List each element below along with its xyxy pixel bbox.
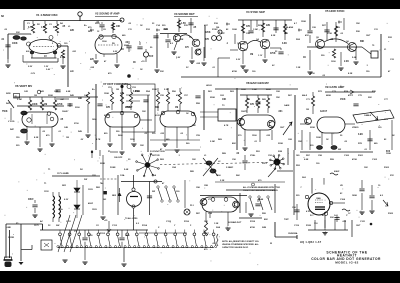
- svg-text:R18: R18: [214, 23, 219, 25]
- svg-text:R103: R103: [384, 167, 390, 169]
- svg-text:C17: C17: [204, 25, 209, 27]
- svg-text:V4 SYNC SEP: V4 SYNC SEP: [246, 10, 265, 14]
- svg-text:J1: J1: [384, 49, 387, 51]
- svg-text:C79: C79: [384, 119, 389, 121]
- svg-text:G-Y: G-Y: [334, 215, 338, 217]
- svg-text:.01: .01: [58, 131, 62, 133]
- svg-text:220: 220: [296, 195, 300, 197]
- svg-text:C57: C57: [184, 95, 189, 97]
- svg-text:250K: 250K: [210, 97, 215, 99]
- svg-text:C94: C94: [208, 212, 213, 215]
- svg-text:R105: R105: [388, 213, 394, 215]
- svg-text:2N35: 2N35: [124, 45, 130, 47]
- svg-text:3A3: 3A3: [302, 176, 307, 179]
- svg-text:150: 150: [16, 137, 20, 139]
- svg-text:1.2M: 1.2M: [252, 89, 257, 91]
- svg-text:Q4: Q4: [256, 38, 260, 41]
- svg-text:1K: 1K: [186, 113, 189, 115]
- svg-text:8.2K: 8.2K: [348, 73, 353, 75]
- svg-text:1500: 1500: [102, 41, 107, 43]
- svg-text:12: 12: [97, 31, 100, 33]
- svg-text:.02: .02: [236, 153, 240, 155]
- svg-text:470K: 470K: [232, 70, 237, 73]
- svg-text:0.2V: 0.2V: [236, 59, 241, 61]
- svg-text:100: 100: [176, 191, 180, 193]
- svg-text:1V: 1V: [44, 56, 47, 58]
- svg-text:.1: .1: [178, 155, 181, 157]
- svg-text:-1.2V: -1.2V: [30, 73, 36, 75]
- svg-text:+35: +35: [104, 220, 108, 222]
- svg-text:10: 10: [378, 185, 381, 187]
- svg-text:1K: 1K: [121, 49, 124, 51]
- svg-text:12K: 12K: [364, 167, 368, 169]
- svg-text:12K: 12K: [192, 159, 196, 161]
- svg-text:UNLESS OTHERWISE SPECIFIED. AL: UNLESS OTHERWISE SPECIFIED. ALL: [222, 243, 260, 246]
- svg-text:1200: 1200: [130, 139, 135, 141]
- svg-text:C3: C3: [49, 24, 53, 26]
- svg-text:6CG7: 6CG7: [155, 115, 161, 117]
- svg-text:1M: 1M: [116, 89, 119, 91]
- svg-text:C121: C121: [360, 221, 366, 223]
- svg-text:R118: R118: [250, 221, 256, 223]
- svg-text:C92: C92: [268, 155, 273, 157]
- svg-text:2700: 2700: [74, 123, 79, 125]
- svg-text:OUT: OUT: [280, 127, 285, 129]
- svg-text:470: 470: [204, 248, 208, 251]
- svg-text:TO ALL HTRS: TO ALL HTRS: [125, 217, 138, 220]
- svg-text:33K: 33K: [330, 217, 334, 219]
- svg-text:R56: R56: [172, 91, 177, 93]
- svg-text:8.2K: 8.2K: [271, 35, 276, 37]
- svg-text:47K: 47K: [106, 106, 111, 109]
- svg-text:33: 33: [275, 51, 278, 53]
- svg-text:Y: Y: [174, 225, 176, 227]
- svg-text:1K: 1K: [392, 135, 395, 137]
- svg-text:6.8K: 6.8K: [304, 159, 309, 161]
- svg-text:2V: 2V: [186, 67, 189, 69]
- svg-text:82: 82: [384, 139, 387, 141]
- svg-text:B+: B+: [92, 89, 96, 91]
- svg-text:2.2K: 2.2K: [344, 61, 349, 63]
- svg-text:470: 470: [88, 26, 92, 29]
- svg-text:R120: R120: [306, 225, 312, 227]
- svg-text:22: 22: [15, 96, 17, 98]
- svg-text:22K: 22K: [70, 30, 75, 32]
- svg-text:R76: R76: [372, 91, 377, 93]
- svg-text:.01: .01: [330, 39, 334, 41]
- svg-text:C26: C26: [312, 27, 317, 29]
- svg-text:.01: .01: [1, 39, 5, 41]
- svg-text:470K: 470K: [135, 90, 140, 93]
- svg-text:22K: 22K: [266, 25, 271, 27]
- svg-text:C11: C11: [128, 29, 133, 31]
- svg-text:180: 180: [296, 155, 300, 157]
- svg-text:AC: AC: [40, 220, 44, 223]
- svg-text:1M: 1M: [34, 95, 37, 97]
- svg-text:3300: 3300: [75, 107, 80, 109]
- svg-text:R45: R45: [70, 94, 75, 97]
- svg-text:2.2K: 2.2K: [220, 180, 225, 182]
- svg-text:100K: 100K: [232, 29, 237, 31]
- svg-text:15K: 15K: [276, 97, 280, 99]
- svg-text:SIZE: SIZE: [6, 93, 11, 95]
- svg-text:4.7: 4.7: [294, 22, 298, 25]
- svg-text:C98: C98: [318, 155, 323, 157]
- svg-text:1A: 1A: [60, 208, 63, 211]
- svg-text:R15: R15: [184, 25, 189, 27]
- svg-text:.033: .033: [160, 133, 165, 135]
- svg-text:220: 220: [16, 145, 20, 147]
- svg-text:270: 270: [238, 135, 242, 137]
- svg-text:2.2M: 2.2M: [210, 141, 215, 143]
- svg-text:C48: C48: [64, 126, 69, 129]
- svg-text:5.6K: 5.6K: [352, 57, 357, 59]
- svg-text:V POS: V POS: [8, 121, 15, 123]
- svg-text:.01: .01: [364, 149, 368, 151]
- svg-text:0.5V: 0.5V: [28, 66, 33, 68]
- svg-text:TAL: TAL: [100, 182, 104, 185]
- svg-text:.005: .005: [196, 63, 201, 65]
- svg-text:1200: 1200: [216, 175, 221, 177]
- svg-text:.01: .01: [212, 67, 216, 69]
- svg-text:.05: .05: [344, 141, 348, 143]
- svg-text:100K: 100K: [316, 137, 321, 139]
- svg-text:Q5: Q5: [316, 37, 320, 39]
- svg-text:+15: +15: [141, 61, 145, 63]
- svg-text:4700: 4700: [310, 72, 315, 75]
- svg-text:S2B: S2B: [262, 227, 267, 229]
- svg-text:12AU7: 12AU7: [320, 110, 328, 113]
- svg-text:PL1: PL1: [190, 205, 195, 207]
- svg-text:V5 HOR SYNC: V5 HOR SYNC: [325, 9, 346, 13]
- svg-text:Q6: Q6: [346, 41, 350, 43]
- svg-text:C20: C20: [246, 33, 251, 35]
- svg-text:.05: .05: [62, 26, 66, 28]
- svg-text:1N60: 1N60: [163, 29, 169, 31]
- svg-text:T3: T3: [222, 105, 225, 107]
- svg-text:.01: .01: [254, 141, 258, 143]
- svg-text:R95: R95: [262, 213, 267, 215]
- svg-text:OUT: OUT: [366, 35, 371, 37]
- svg-text:R-Y: R-Y: [310, 215, 314, 217]
- svg-text:470K: 470K: [352, 158, 357, 161]
- svg-text:.05: .05: [42, 131, 46, 133]
- svg-text:115V: 115V: [44, 191, 49, 193]
- svg-text:C75: C75: [358, 95, 363, 97]
- svg-text:C14: C14: [156, 24, 161, 27]
- svg-text:N2: N2: [1, 16, 5, 18]
- svg-text:270K: 270K: [327, 33, 332, 35]
- svg-text:6AL5: 6AL5: [302, 94, 308, 97]
- svg-text:L1: L1: [204, 155, 207, 157]
- svg-text:82: 82: [226, 29, 229, 31]
- svg-text:6.3V: 6.3V: [64, 199, 69, 201]
- svg-text:CHROMA: CHROMA: [288, 232, 298, 235]
- svg-text:82K: 82K: [264, 219, 268, 221]
- svg-text:1.5K: 1.5K: [41, 27, 46, 29]
- svg-text:470: 470: [185, 46, 190, 49]
- svg-text:220K: 220K: [125, 107, 131, 109]
- svg-text:250V: 250V: [95, 23, 100, 25]
- svg-text:1500: 1500: [252, 135, 257, 137]
- svg-text:22K: 22K: [70, 71, 74, 73]
- svg-text:C102: C102: [372, 159, 378, 161]
- svg-text:R54: R54: [146, 90, 151, 93]
- svg-text:1M: 1M: [66, 137, 69, 139]
- svg-text:60HZ: 60HZ: [334, 171, 340, 173]
- svg-text:R93: R93: [296, 165, 301, 167]
- svg-text:V7 DOT FORM MV: V7 DOT FORM MV: [103, 82, 128, 86]
- svg-text:1V: 1V: [348, 213, 351, 215]
- svg-text:6EA8: 6EA8: [258, 198, 264, 201]
- svg-text:R114: R114: [142, 224, 148, 227]
- svg-text:33: 33: [152, 23, 155, 25]
- svg-text:SYNC: SYNC: [212, 29, 218, 31]
- svg-text:ALL VOLTAGES MEASURED WITH VTV: ALL VOLTAGES MEASURED WITH VTVM: [243, 186, 280, 189]
- svg-text:C23: C23: [284, 33, 289, 35]
- svg-text:R12: R12: [146, 29, 151, 31]
- svg-text:47K: 47K: [250, 103, 255, 106]
- svg-text:330K: 330K: [278, 143, 283, 145]
- svg-text:R27: R27: [322, 25, 327, 27]
- svg-text:R61: R61: [208, 91, 213, 93]
- svg-text:.7: .7: [300, 187, 302, 189]
- svg-text:V9 GATE AMP: V9 GATE AMP: [325, 85, 344, 89]
- svg-text:1800: 1800: [92, 119, 97, 121]
- svg-text:.001: .001: [72, 51, 77, 53]
- svg-text:C119: C119: [294, 225, 300, 227]
- svg-text:.005: .005: [90, 67, 95, 69]
- svg-text:4.5: 4.5: [170, 42, 174, 45]
- svg-text:R4: R4: [60, 22, 64, 25]
- svg-text:C84: C84: [172, 166, 177, 169]
- svg-text:150: 150: [366, 71, 370, 73]
- svg-text:1200: 1200: [331, 61, 336, 63]
- svg-text:.02: .02: [125, 42, 129, 44]
- svg-text:R82: R82: [96, 187, 101, 189]
- svg-text:1K: 1K: [326, 139, 329, 141]
- svg-text:20: 20: [150, 47, 153, 49]
- svg-text:33K: 33K: [160, 71, 164, 73]
- svg-text:150V: 150V: [92, 209, 97, 211]
- svg-text:3.58MC: 3.58MC: [226, 167, 234, 169]
- svg-text:1M: 1M: [306, 109, 309, 111]
- svg-text:W: W: [270, 243, 272, 245]
- svg-text:470: 470: [108, 72, 112, 75]
- svg-text:150K: 150K: [301, 21, 306, 23]
- svg-text:C29: C29: [336, 27, 341, 29]
- svg-text:12AX7: 12AX7: [62, 110, 69, 113]
- svg-text:4.7K: 4.7K: [28, 26, 33, 29]
- svg-text:15K: 15K: [356, 23, 360, 25]
- svg-text:R69: R69: [218, 139, 223, 141]
- svg-text:5UF: 5UF: [149, 56, 154, 58]
- svg-text:1/2A: 1/2A: [120, 174, 125, 177]
- svg-text:S2A: S2A: [216, 226, 221, 229]
- svg-text:27K: 27K: [390, 175, 394, 177]
- svg-text:560: 560: [186, 143, 190, 145]
- svg-text:V6 VERT MV: V6 VERT MV: [15, 84, 32, 88]
- svg-text:40UF: 40UF: [88, 202, 94, 205]
- svg-text:39K: 39K: [78, 98, 83, 100]
- svg-text:R65: R65: [262, 99, 267, 101]
- svg-text:220K: 220K: [205, 32, 211, 34]
- svg-text:2.2K: 2.2K: [179, 39, 184, 41]
- svg-text:33PF: 33PF: [262, 163, 268, 165]
- svg-text:C53: C53: [132, 87, 137, 89]
- svg-text:470K: 470K: [57, 103, 63, 106]
- svg-text:330: 330: [152, 133, 156, 135]
- svg-text:R24: R24: [296, 38, 301, 41]
- svg-text:.1: .1: [226, 43, 229, 45]
- svg-text:100K: 100K: [386, 153, 391, 155]
- svg-text:470K: 470K: [250, 226, 255, 229]
- svg-text:47K: 47K: [246, 25, 251, 28]
- svg-text:SR1: SR1: [62, 185, 67, 187]
- svg-text:R97: R97: [306, 155, 311, 157]
- svg-text:470: 470: [258, 179, 262, 182]
- svg-text:82: 82: [199, 49, 202, 51]
- svg-text:47: 47: [388, 70, 391, 73]
- svg-text:12AT7: 12AT7: [241, 110, 248, 113]
- svg-text:R101: R101: [358, 155, 364, 157]
- svg-text:1.2V: 1.2V: [44, 66, 49, 68]
- svg-text:.05: .05: [193, 27, 197, 29]
- svg-text:3.3K: 3.3K: [282, 43, 287, 45]
- svg-text:LINE: LINE: [6, 227, 11, 229]
- svg-text:47PF: 47PF: [348, 94, 354, 97]
- svg-text:B+: B+: [84, 25, 88, 27]
- svg-text:D1: D1: [66, 173, 70, 175]
- svg-text:180K: 180K: [352, 195, 357, 197]
- svg-text:ON-OFF: ON-OFF: [114, 157, 123, 159]
- svg-text:100: 100: [316, 163, 320, 165]
- svg-text:CABLE: CABLE: [364, 114, 372, 117]
- svg-text:8.2K: 8.2K: [34, 137, 39, 139]
- svg-text:40UF: 40UF: [28, 198, 34, 201]
- svg-text:SW: SW: [56, 225, 59, 227]
- svg-text:R112: R112: [100, 233, 106, 235]
- svg-text:.1: .1: [366, 65, 369, 67]
- svg-text:47: 47: [162, 182, 165, 185]
- svg-text:100K: 100K: [241, 89, 246, 91]
- svg-text:5600: 5600: [118, 135, 123, 137]
- svg-text:33K: 33K: [16, 32, 20, 34]
- svg-text:7: 7: [57, 35, 59, 37]
- svg-text:XTAL: XTAL: [250, 154, 256, 157]
- svg-text:82K: 82K: [232, 143, 236, 145]
- svg-text:V2 SOUND IF AMP: V2 SOUND IF AMP: [95, 12, 120, 16]
- svg-text:Z: Z: [190, 225, 192, 227]
- svg-text:1K: 1K: [303, 57, 306, 59]
- svg-text:HQ 1-QB2 1-67: HQ 1-QB2 1-67: [300, 241, 322, 244]
- svg-text:C100: C100: [344, 155, 350, 157]
- svg-text:2.2M: 2.2M: [17, 99, 22, 101]
- svg-text:820: 820: [104, 133, 108, 135]
- svg-text:39: 39: [340, 135, 343, 137]
- svg-text:R30: R30: [356, 31, 361, 33]
- svg-text:1M: 1M: [175, 107, 178, 109]
- svg-text:C113: C113: [112, 225, 118, 227]
- svg-text:C31: C31: [374, 29, 379, 31]
- svg-text:12K: 12K: [142, 111, 146, 113]
- svg-text:S2 BAR-DOT: S2 BAR-DOT: [228, 221, 242, 224]
- svg-text:1.5M: 1.5M: [253, 29, 258, 31]
- svg-text:6.8K: 6.8K: [66, 91, 71, 93]
- svg-text:CAPACITOR VALUES IN UF.: CAPACITOR VALUES IN UF.: [222, 246, 249, 249]
- svg-text:1C4: 1C4: [314, 222, 318, 225]
- svg-text:R43: R43: [40, 90, 45, 93]
- svg-text:680K: 680K: [326, 95, 331, 97]
- svg-text:12AB: 12AB: [316, 197, 321, 200]
- svg-text:56K: 56K: [236, 175, 240, 177]
- svg-text:39K: 39K: [192, 125, 196, 127]
- svg-text:15K: 15K: [298, 141, 302, 143]
- svg-text:.047: .047: [60, 98, 65, 101]
- svg-text:3.9K: 3.9K: [358, 134, 363, 136]
- svg-text:22K: 22K: [368, 97, 372, 99]
- svg-text:3.4V: 3.4V: [46, 68, 51, 71]
- svg-text:8C: 8C: [340, 193, 343, 195]
- svg-text:TINT: TINT: [284, 219, 289, 221]
- svg-text:C90: C90: [232, 159, 237, 161]
- svg-text:B-Y: B-Y: [322, 215, 326, 217]
- svg-text:68K: 68K: [360, 41, 365, 43]
- svg-text:5.6K: 5.6K: [124, 169, 129, 171]
- svg-text:BLANK: BLANK: [286, 26, 294, 29]
- svg-text:-3V: -3V: [80, 139, 84, 141]
- svg-text:120: 120: [64, 43, 68, 45]
- svg-text:220K: 220K: [310, 127, 315, 129]
- svg-text:2W: 2W: [152, 191, 155, 193]
- svg-text:R87: R87: [196, 213, 201, 215]
- svg-text:MODEL IG-62: MODEL IG-62: [335, 260, 359, 264]
- svg-text:47K: 47K: [176, 94, 180, 97]
- svg-text:120: 120: [378, 127, 382, 129]
- svg-text:117V: 117V: [34, 225, 39, 227]
- svg-text:S1A: S1A: [152, 174, 157, 177]
- svg-text:470: 470: [46, 134, 50, 137]
- svg-text:47: 47: [104, 60, 107, 63]
- svg-text:.02: .02: [340, 33, 344, 35]
- svg-text:6.3: 6.3: [136, 223, 140, 225]
- svg-text:R63: R63: [230, 91, 235, 93]
- svg-text:68K: 68K: [155, 107, 160, 109]
- svg-text:.005: .005: [342, 221, 347, 223]
- svg-text:1K: 1K: [140, 69, 143, 71]
- svg-text:C2: C2: [96, 225, 100, 227]
- svg-text:150K: 150K: [104, 93, 109, 95]
- svg-text:V3 SOUND DET: V3 SOUND DET: [174, 12, 195, 16]
- svg-text:NE2: NE2: [112, 195, 117, 197]
- svg-text:D2: D2: [80, 169, 84, 171]
- svg-text:S1 FUNCTION: S1 FUNCTION: [150, 151, 165, 153]
- svg-text:C115: C115: [166, 221, 172, 223]
- svg-text:L2: L2: [218, 161, 221, 163]
- svg-text:OUT: OUT: [356, 225, 361, 227]
- svg-text:C59: C59: [196, 135, 201, 137]
- svg-text:R99: R99: [330, 159, 335, 161]
- svg-text:680: 680: [374, 143, 378, 145]
- svg-text:C68: C68: [288, 139, 293, 141]
- svg-text:47K: 47K: [205, 38, 210, 41]
- svg-text:C8: C8: [103, 29, 107, 31]
- svg-text:6J6: 6J6: [26, 51, 30, 53]
- svg-text:4.7K: 4.7K: [224, 124, 229, 127]
- svg-text:ROTOR: ROTOR: [152, 155, 160, 157]
- svg-text:220K: 220K: [100, 163, 105, 165]
- svg-text:330K: 330K: [152, 89, 157, 91]
